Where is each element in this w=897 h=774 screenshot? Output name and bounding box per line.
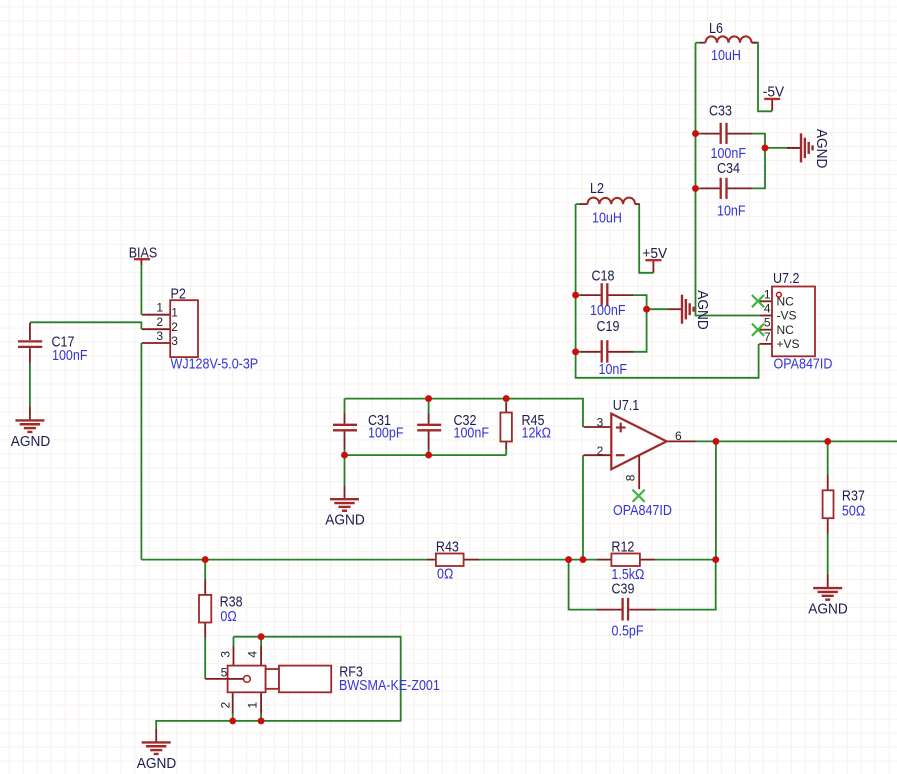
svg-text:-VS: -VS <box>777 309 797 323</box>
svg-text:6: 6 <box>675 429 682 443</box>
svg-text:BIAS: BIAS <box>129 245 158 261</box>
svg-text:2: 2 <box>171 320 178 334</box>
svg-text:3: 3 <box>597 415 604 429</box>
svg-text:4: 4 <box>764 302 771 316</box>
svg-text:100nF: 100nF <box>52 347 87 363</box>
svg-text:OPA847ID: OPA847ID <box>774 356 833 372</box>
svg-text:1: 1 <box>171 306 178 320</box>
svg-text:5: 5 <box>221 666 228 680</box>
svg-text:C33: C33 <box>709 103 732 119</box>
svg-text:2: 2 <box>156 315 163 329</box>
svg-text:1: 1 <box>764 287 771 301</box>
svg-text:1: 1 <box>245 702 259 709</box>
svg-text:C39: C39 <box>612 581 635 597</box>
svg-text:100nF: 100nF <box>590 302 625 318</box>
svg-text:U7.1: U7.1 <box>613 397 639 413</box>
svg-text:10nF: 10nF <box>599 361 628 377</box>
svg-text:3: 3 <box>218 651 232 658</box>
svg-text:100nF: 100nF <box>454 424 489 440</box>
svg-text:4: 4 <box>245 651 259 658</box>
svg-text:3: 3 <box>156 329 163 343</box>
svg-text:100pF: 100pF <box>368 424 403 440</box>
svg-text:2: 2 <box>597 444 604 458</box>
svg-text:C34: C34 <box>717 160 740 176</box>
svg-text:12kΩ: 12kΩ <box>522 424 552 440</box>
svg-text:OPA847ID: OPA847ID <box>613 502 672 518</box>
svg-text:0Ω: 0Ω <box>437 566 453 582</box>
svg-text:U7.2: U7.2 <box>773 270 799 286</box>
svg-text:8: 8 <box>623 474 637 481</box>
svg-text:WJ128V-5.0-3P: WJ128V-5.0-3P <box>171 356 259 372</box>
svg-text:AGND: AGND <box>11 432 50 448</box>
svg-text:3: 3 <box>171 334 178 348</box>
svg-text:0.5pF: 0.5pF <box>612 622 644 638</box>
svg-text:5: 5 <box>764 316 771 330</box>
svg-text:C18: C18 <box>592 267 615 283</box>
svg-text:P2: P2 <box>171 286 186 302</box>
svg-text:L6: L6 <box>709 20 723 36</box>
svg-text:AGND: AGND <box>137 754 176 770</box>
svg-text:10uH: 10uH <box>592 209 622 225</box>
svg-text:10nF: 10nF <box>717 203 746 219</box>
svg-text:1: 1 <box>156 301 163 315</box>
svg-text:100nF: 100nF <box>711 145 746 161</box>
svg-text:10uH: 10uH <box>711 47 741 63</box>
svg-text:AGND: AGND <box>808 600 847 616</box>
svg-text:R37: R37 <box>842 488 865 504</box>
svg-text:50Ω: 50Ω <box>842 503 865 519</box>
svg-text:AGND: AGND <box>325 511 364 527</box>
svg-text:0Ω: 0Ω <box>220 608 236 624</box>
svg-text:+VS: +VS <box>777 337 800 351</box>
svg-text:C19: C19 <box>597 318 620 334</box>
svg-text:NC: NC <box>777 295 795 309</box>
svg-text:BWSMA-KE-Z001: BWSMA-KE-Z001 <box>339 677 440 693</box>
svg-text:1.5kΩ: 1.5kΩ <box>611 566 644 582</box>
svg-text:R43: R43 <box>436 538 459 554</box>
svg-text:2: 2 <box>218 702 232 709</box>
svg-text:NC: NC <box>777 323 795 337</box>
svg-text:L2: L2 <box>590 180 604 196</box>
svg-text:AGND: AGND <box>695 290 711 329</box>
svg-text:AGND: AGND <box>814 129 830 168</box>
svg-text:+5V: +5V <box>642 244 667 260</box>
svg-text:-5V: -5V <box>763 83 785 99</box>
svg-text:7: 7 <box>764 330 771 344</box>
svg-text:R12: R12 <box>611 538 634 554</box>
